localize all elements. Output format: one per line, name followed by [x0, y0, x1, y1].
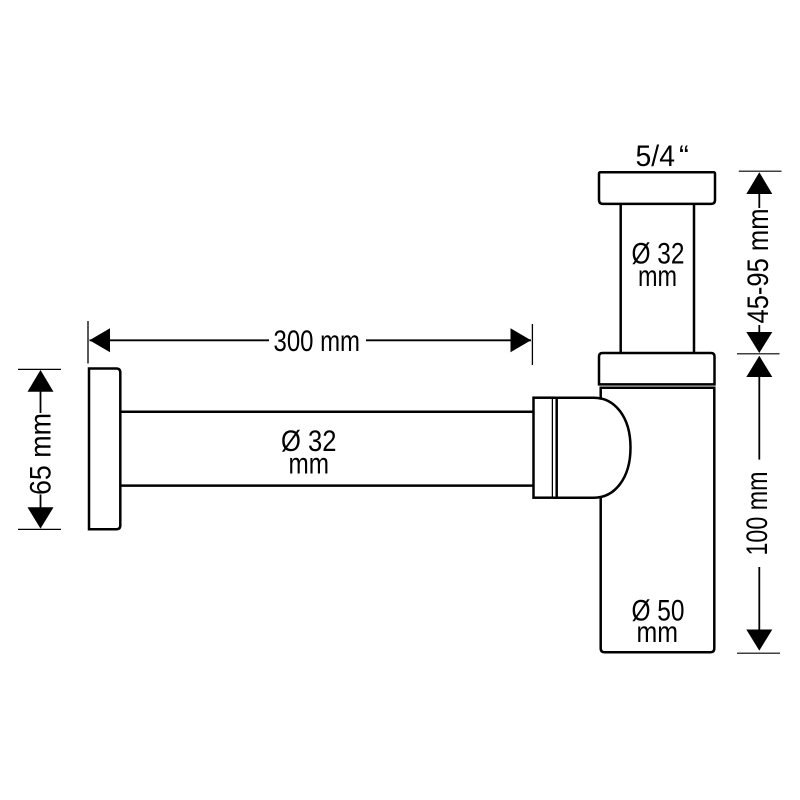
svg-text:65 mm: 65 mm	[25, 413, 58, 495]
dim 45-95mm bottom arrow	[746, 332, 772, 353]
svg-text:mm: mm	[289, 448, 330, 481]
inlet pipe right edge	[693, 204, 696, 353]
dim 45-95mm bottom tick	[737, 353, 780, 355]
top flange	[599, 172, 715, 204]
dim 65mm top arrow	[28, 370, 54, 392]
inlet pipe left edge	[619, 204, 622, 353]
svg-text:100 mm: 100 mm	[741, 472, 774, 556]
dim 65mm top tick	[18, 368, 61, 370]
elbow ring line	[555, 398, 558, 498]
dim 45-95mm top tick	[739, 170, 782, 172]
dim 300mm left extension line	[87, 321, 89, 364]
dim 300mm right arrow	[511, 328, 532, 352]
dim 65mm bottom tick	[18, 528, 61, 530]
dim 100mm lower line segment	[758, 567, 760, 630]
dim 300mm line right segment	[366, 339, 531, 341]
horizontal pipe bottom edge	[120, 484, 533, 487]
dim 100mm upper line segment	[758, 377, 760, 460]
dim 300mm right extension line	[531, 324, 533, 365]
compression fitting	[534, 398, 554, 498]
svg-text:45-95 mm: 45-95 mm	[742, 209, 775, 324]
dim 65mm bottom arrow	[28, 507, 54, 528]
dim 300mm left arrow	[90, 328, 111, 352]
dim 65mm line upper segment	[40, 391, 42, 413]
dim 45-95mm lower line segment	[758, 325, 760, 333]
dim 45-95mm upper line segment	[758, 194, 760, 209]
dim 100mm bottom arrow	[746, 630, 772, 651]
dim 100mm top arrow	[746, 356, 772, 377]
svg-text:5/4: 5/4	[636, 140, 676, 173]
bottle cup	[601, 388, 715, 653]
dim 300mm line left segment	[90, 339, 270, 341]
wall flange	[89, 369, 120, 530]
svg-text:mm: mm	[638, 260, 677, 293]
locknut	[599, 353, 715, 384]
dim 65mm line lower segment	[40, 495, 42, 508]
svg-text:mm: mm	[637, 616, 679, 649]
svg-text:300 mm: 300 mm	[274, 325, 361, 358]
horizontal pipe top edge	[120, 411, 533, 414]
dim 100mm bottom tick	[737, 652, 780, 654]
svg-text:“: “	[679, 140, 689, 173]
dim 45-95mm top arrow	[746, 172, 772, 194]
elbow body	[553, 398, 631, 498]
